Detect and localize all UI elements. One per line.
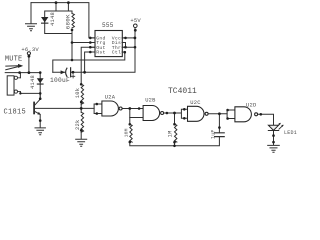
svg-text:680K: 680K bbox=[65, 14, 72, 29]
svg-text:555: 555 bbox=[102, 22, 114, 29]
svg-text:U2C: U2C bbox=[190, 100, 200, 106]
svg-text:Ctl: Ctl bbox=[112, 50, 121, 56]
svg-text:Rst: Rst bbox=[96, 50, 105, 56]
svg-text:U2A: U2A bbox=[105, 94, 116, 100]
svg-text:U2B: U2B bbox=[145, 97, 156, 103]
svg-text:4148: 4148 bbox=[30, 75, 36, 89]
svg-text:TC4011: TC4011 bbox=[168, 87, 197, 96]
svg-text:10M: 10M bbox=[124, 128, 130, 137]
svg-text:10k: 10k bbox=[75, 88, 81, 99]
svg-text:1M: 1M bbox=[168, 130, 174, 137]
svg-text:22k: 22k bbox=[75, 120, 81, 131]
svg-text:MUTE: MUTE bbox=[5, 55, 22, 63]
svg-text:LED1: LED1 bbox=[284, 130, 297, 136]
svg-text:U2D: U2D bbox=[246, 102, 256, 108]
svg-text:4148: 4148 bbox=[50, 12, 56, 26]
svg-text:+5V: +5V bbox=[130, 17, 141, 24]
svg-text:C1815: C1815 bbox=[4, 108, 27, 116]
svg-text:+6.3V: +6.3V bbox=[21, 46, 39, 53]
svg-text:100uF: 100uF bbox=[50, 77, 70, 84]
svg-text:1uF: 1uF bbox=[210, 129, 216, 139]
